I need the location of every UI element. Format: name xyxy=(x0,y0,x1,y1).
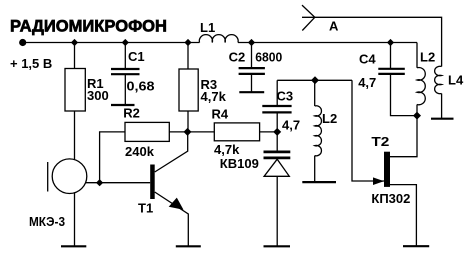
transistor T2 xyxy=(371,116,417,247)
ground under C1 xyxy=(111,104,135,106)
svg-text:L2: L2 xyxy=(322,111,337,126)
node C3/L2 top junction xyxy=(311,76,319,84)
wire T2 gate line xyxy=(352,80,384,181)
varicap VD KV109 xyxy=(220,152,290,176)
svg-text:T1: T1 xyxy=(138,201,153,216)
node junction R3/rail xyxy=(184,39,191,46)
node battery + terminal xyxy=(19,39,26,46)
svg-text:4,7k: 4,7k xyxy=(214,142,240,157)
node junction mic/R2 xyxy=(96,179,103,186)
wire node B to R4 xyxy=(188,131,215,133)
wire top supply rail left segment xyxy=(23,42,200,44)
wire rail to C1 xyxy=(124,43,126,70)
ground under varicap xyxy=(264,245,291,247)
svg-text:4,7: 4,7 xyxy=(282,118,300,133)
wire C3 to varicap node xyxy=(276,112,278,150)
svg-text:L1: L1 xyxy=(200,20,215,35)
wire rail to R1 xyxy=(74,43,76,69)
node B junction R2/R3/R4/collector xyxy=(184,128,192,136)
node junction C1/rail xyxy=(122,39,129,46)
svg-text:R4: R4 xyxy=(212,107,229,122)
svg-text:6800: 6800 xyxy=(255,50,282,65)
capacitor C1 xyxy=(111,49,155,94)
wire C1 to ground xyxy=(124,74,126,105)
capacitor C2 xyxy=(229,50,283,74)
resistor R1 xyxy=(65,69,109,112)
ground under L4 xyxy=(431,118,454,120)
node junction R4/C3/VD xyxy=(273,128,281,136)
ground under T1 xyxy=(176,245,201,247)
resistor R4 xyxy=(212,107,260,158)
wire R3 to node B xyxy=(187,111,189,132)
svg-text:C2: C2 xyxy=(229,50,246,65)
svg-text:КП302: КП302 xyxy=(371,191,410,206)
ground under microphone xyxy=(61,245,86,247)
inductor L2 middle xyxy=(315,106,337,156)
inductor L4 xyxy=(435,66,464,93)
node junction drain/L2/C4 xyxy=(413,112,421,120)
inductor L1 xyxy=(199,20,238,43)
wire microphone output to T1 base xyxy=(86,182,151,184)
capacitor C4 xyxy=(358,51,405,90)
svg-text:A: A xyxy=(329,19,339,34)
wire varicap to ground xyxy=(276,176,278,246)
svg-text:C1: C1 xyxy=(128,49,145,64)
svg-text:РАДИОМИКРОФОН: РАДИОМИКРОФОН xyxy=(10,17,167,36)
transistor T1 xyxy=(138,132,188,246)
wire L4 to ground xyxy=(441,94,443,119)
wire microphone to ground xyxy=(74,193,76,246)
svg-text:МКЭ-3: МКЭ-3 xyxy=(29,214,65,229)
wire node to L2 coil xyxy=(314,80,316,106)
svg-text:0,68: 0,68 xyxy=(127,79,155,94)
ground under T2 xyxy=(403,245,429,247)
wire R1 to microphone xyxy=(74,111,76,160)
svg-text:+ 1,5 В: + 1,5 В xyxy=(10,56,52,71)
svg-text:C3: C3 xyxy=(277,89,294,104)
wire L2 to ground xyxy=(314,156,316,183)
wire rail to C2 xyxy=(251,43,253,69)
microphone MKE-3 xyxy=(29,159,87,229)
wire top supply rail right segment xyxy=(238,42,417,44)
svg-text:240k: 240k xyxy=(125,144,155,159)
svg-text:4,7: 4,7 xyxy=(358,75,376,90)
svg-text:L2: L2 xyxy=(420,50,435,65)
resistor R3 xyxy=(179,69,227,111)
svg-text:R2: R2 xyxy=(123,106,140,121)
node junction C2/rail xyxy=(248,39,255,46)
wire C3 top node line xyxy=(277,79,352,81)
ground under C2 xyxy=(239,91,264,93)
wire R2 right to node B xyxy=(169,131,187,133)
antenna A xyxy=(302,5,442,66)
node junction C4/rail xyxy=(387,39,394,46)
svg-text:L4: L4 xyxy=(448,73,464,88)
wire C2 to ground xyxy=(251,74,253,92)
wire rail corner to L2 top coil xyxy=(416,43,418,68)
wire rail to C4 xyxy=(390,43,392,69)
resistor R2 xyxy=(123,106,169,160)
wire L2 top to drain node xyxy=(416,105,418,116)
capacitor C3 xyxy=(262,89,300,133)
node junction R1/rail xyxy=(71,39,78,46)
svg-text:C4: C4 xyxy=(359,51,376,66)
wire node to R2 left xyxy=(100,132,125,183)
inductor L2 top xyxy=(417,50,435,105)
svg-text:4,7k: 4,7k xyxy=(201,89,227,104)
svg-text:T2: T2 xyxy=(371,134,389,149)
wire node to C3 xyxy=(276,80,278,106)
wire R4 to varicap node xyxy=(260,131,278,133)
svg-text:300: 300 xyxy=(87,88,109,103)
wire rail to R3 xyxy=(187,43,189,70)
svg-text:КВ109: КВ109 xyxy=(220,156,259,171)
wire C4 to drain node xyxy=(391,74,418,116)
ground under L2 middle xyxy=(302,181,336,183)
